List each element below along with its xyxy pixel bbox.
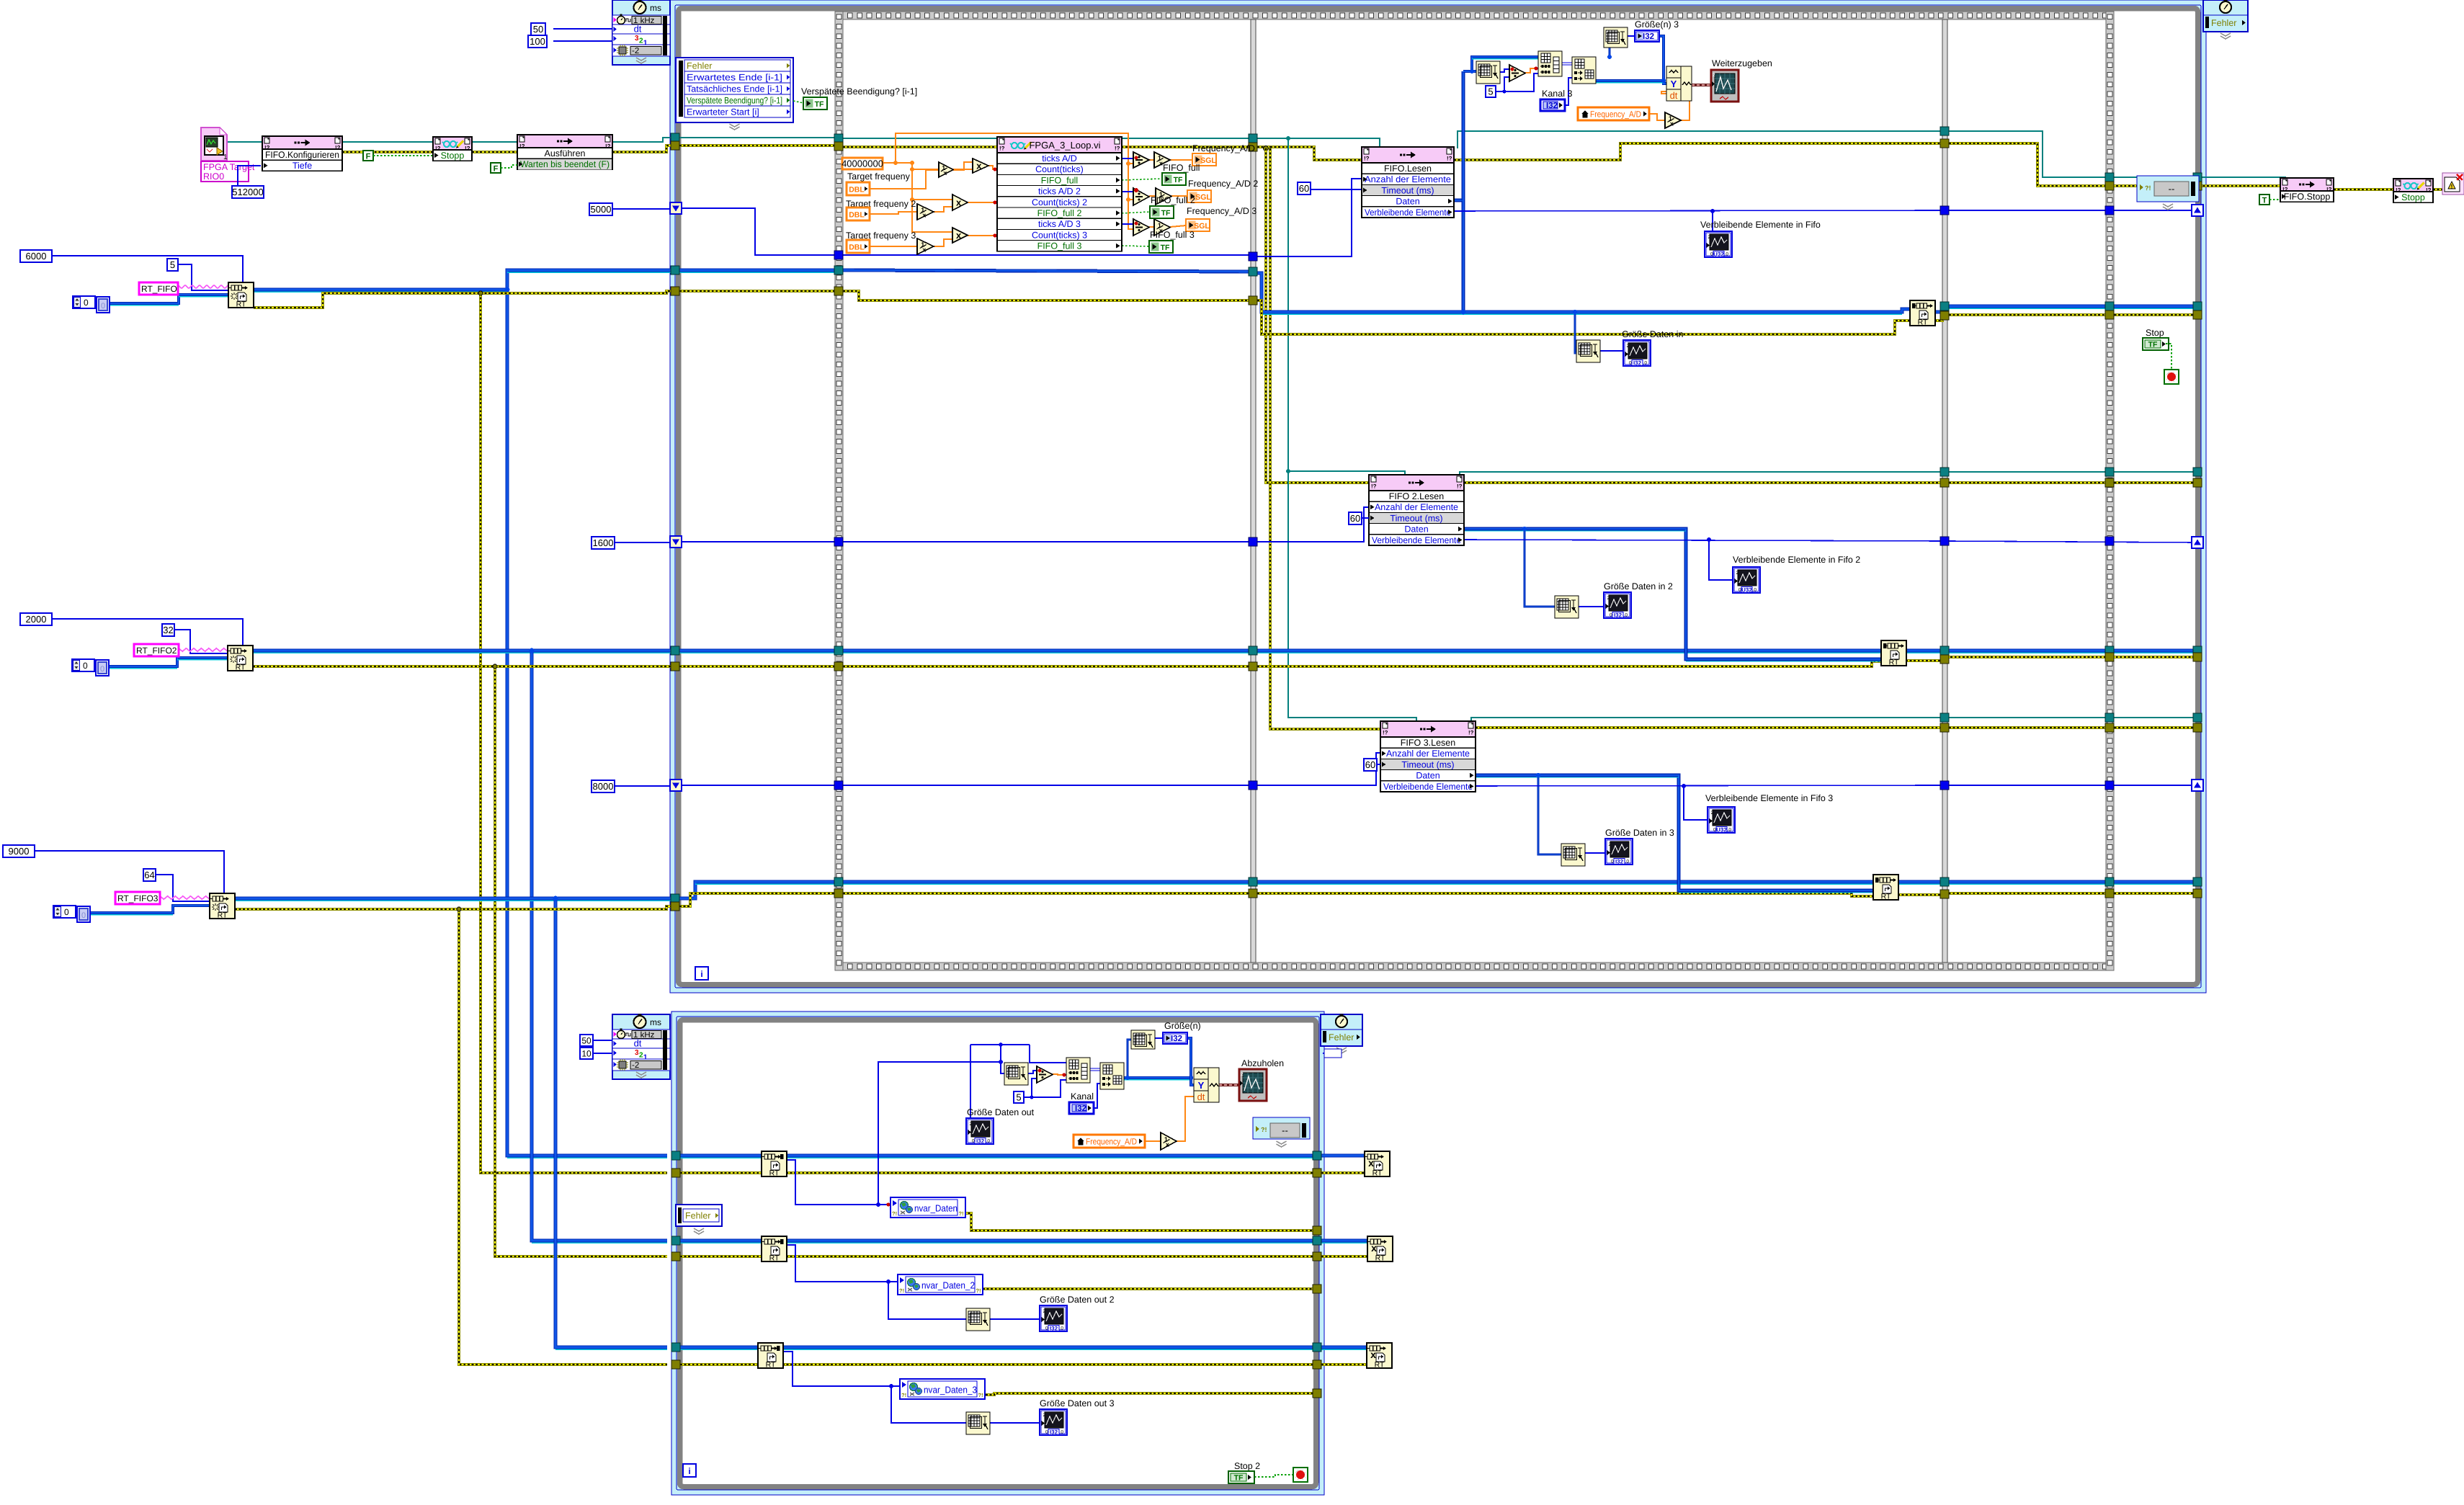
node RT FIFO delete 2 [1367,1236,1393,1261]
constant 0 element 2 [96,660,109,676]
wire: build waveform to Abzuholen [1219,1084,1239,1086]
reciprocal right 1 [1154,152,1170,168]
shift register left terminals [670,202,682,214]
bottom loop Fehler node [676,1205,722,1226]
wire: index to reshape bottom [1090,1068,1100,1069]
wire: Target frequeny 2 to reciprocal [870,212,917,214]
wire: data1 to nvar_Daten [786,1160,890,1205]
svg-text:Frequency_A/D: Frequency_A/D [1590,110,1641,120]
wire: divide to index bottom [1053,1074,1066,1075]
reshape array bottom [1100,1063,1124,1089]
svg-text:ms: ms [650,1017,661,1027]
svg-text:!?: !? [1457,483,1463,490]
svg-text:dt: dt [634,24,642,35]
wire: 5000 shift register init [612,208,670,210]
svg-text:x: x [1370,1349,1376,1360]
wire: Daten to processing (thick blue vertical) [1454,200,1463,312]
svg-text:x: x [1166,1141,1169,1148]
constant 50 [531,23,545,35]
svg-text:Tatsächliches Ende [i-1]: Tatsächliches Ende [i-1] [687,84,782,94]
svg-text:Verspätete Beendigung? [i-1]: Verspätete Beendigung? [i-1] [801,86,917,97]
svg-text:0: 0 [81,911,86,920]
svg-text:T: T [2262,197,2267,205]
wire: RT FIFO3 refnum out [235,897,671,901]
divide 3 [1133,219,1149,236]
wire: reciprocal to multiply 1 [953,162,973,170]
svg-text:60: 60 [1365,759,1375,770]
wire: Anzahl der Elemente lane (5000 SR) [680,208,835,255]
svg-text:x: x [943,169,947,177]
wire: RT FIFO2 error lane [679,665,835,668]
svg-text:F: F [366,153,371,161]
svg-text:FIFO_full 2: FIFO_full 2 [1151,195,1195,205]
svg-text:5: 5 [1016,1092,1021,1103]
node RT FIFO delete 3 [1367,1343,1392,1368]
node RT FIFO read 1 [762,1151,787,1176]
wire: FIFO2 teal out [1460,472,1940,475]
svg-text:DBL: DBL [849,186,865,195]
tunnels: sequence left border [834,134,843,143]
wire: array size to Groesse Daten out 2 [990,1318,1040,1320]
svg-text:Y: Y [1198,1080,1205,1091]
constant 5000 [589,203,612,215]
svg-text:1: 1 [223,153,228,161]
wire: 9000 to RT_FIFO3 create [35,851,224,893]
svg-text:Count(ticks) 2: Count(ticks) 2 [1032,197,1087,207]
bottom timed loop right node [1321,1014,1362,1046]
svg-text:dt: dt [634,1038,642,1049]
svg-text:RT: RT [236,664,246,672]
wire: index array to reshape [1562,62,1572,63]
constant 5 bottom [1014,1091,1024,1103]
label RT_FIFO3 [115,892,160,904]
wire: Daten 2 to RT write2 [1464,529,1881,659]
svg-text:Verbleibende Elemente in Fifo: Verbleibende Elemente in Fifo 3 [1705,793,1833,803]
wire: Target frequeny to reciprocal [870,170,939,189]
svg-text:Fehler: Fehler [2211,18,2236,28]
reciprocal 2 [917,204,934,220]
svg-text:x: x [1371,1242,1377,1254]
wire: 6000 to RT_FIFO create [52,256,243,282]
wire: divide to index array [1525,68,1538,73]
wire: error vertical to FIFO 2.Lesen [1266,148,1369,483]
main loop iteration terminal i [695,967,708,980]
wire: small output stub right node [1323,1053,1339,1054]
multiply 3 [952,228,968,243]
svg-text:Y: Y [1671,79,1677,89]
wire: RT FIFO2 error vertical [495,666,667,1256]
svg-text:--: -- [1282,1125,1288,1136]
svg-text:!?: !? [1371,483,1377,490]
array size top cluster [1476,61,1500,84]
wire: RT FIFO2 error out [253,665,671,668]
wire: error vertical to FIFO 3.Lesen [1270,148,1380,729]
shift register right terminals [2192,205,2203,216]
wire: RT write1 error out [1934,315,2193,321]
node FIFO 2.Lesen [1369,475,1464,545]
svg-text:Warten bis beendet (F): Warten bis beendet (F) [520,159,610,169]
svg-text:Frequency_A/D 3: Frequency_A/D 3 [1187,206,1256,216]
svg-text:U32: U32 [1741,587,1752,594]
wire: branch to Verbleibende in Fifo 3 indicator [1684,786,1708,820]
constant 0 spinner [73,296,95,308]
wire: array size to Groesse(n)3 [1608,46,1610,57]
wire: branch to Groesse Daten out indicator [970,1045,971,1118]
node RT FIFO write 2 [1881,640,1906,666]
svg-text:FIFO 2.Lesen: FIFO 2.Lesen [1389,491,1444,501]
wire: error lane frame1 [679,144,835,147]
svg-text:U32: U32 [1716,827,1727,834]
wire: reciprocal 2 to multiply 2 [934,207,952,212]
svg-text:?!: ?! [976,1287,981,1294]
svg-text:Größe Daten out 2: Größe Daten out 2 [1040,1295,1115,1305]
global variable Frequency_A/D bottom [1073,1135,1145,1148]
wire: reshape to build waveform bottom [1124,1076,1191,1079]
indicator SGL Frequency_A/D [1192,153,1216,166]
indicator SGL Frequency_A/D 2 [1187,190,1211,202]
svg-text:x: x [976,161,982,171]
svg-text:RT_FIFO2: RT_FIFO2 [136,646,177,656]
svg-text:dt: dt [1670,90,1678,101]
tunnels: divider 2 [1940,127,1949,135]
wire: RT write2 error out [1906,657,2193,661]
wire: Stop 2 boolean [1254,1475,1293,1477]
node Stopp 2 (property) [2393,179,2433,202]
constant 0 element [97,297,110,313]
svg-text:!?: !? [605,143,611,150]
wire: RT FIFO1 error vertical to reader loop [481,293,667,1173]
wire: 60 to Timeout 2 [1362,517,1369,519]
svg-text:!: ! [2451,184,2453,190]
wire: 5 to divide and index [1496,73,1538,91]
svg-text:RT: RT [218,911,228,920]
wire: teal FPGA ref from target to loop [227,141,262,143]
constant 0 spinner 3 [53,906,76,918]
reciprocal 1 [939,162,953,177]
svg-text:512000: 512000 [232,187,263,197]
FPGA Target RIO0 label [201,161,249,182]
svg-text:Größe(n) 3: Größe(n) 3 [1635,19,1679,30]
svg-text:Fehler: Fehler [687,61,712,71]
svg-text:Stopp: Stopp [441,151,465,161]
node Ausfuehren [517,135,612,169]
label RT_FIFO2 [134,644,179,656]
svg-text:DBL: DBL [849,211,865,220]
svg-text:!?: !? [2426,187,2432,194]
array size Groesse Daten in [1576,340,1600,362]
error display main loop [2137,176,2199,202]
svg-text:Timeout (ms): Timeout (ms) [1381,185,1434,195]
svg-text:Verbleibende Elemente: Verbleibende Elemente [1365,207,1451,218]
wire: array size to Groesse Daten out 3 [990,1422,1040,1424]
array size out 3 [966,1412,990,1434]
wire: RT write1 refnum out [1934,306,2193,312]
indicator I32 Groesse(n) [1163,1032,1187,1044]
wire: 2000 to RT_FIFO2 create [52,619,243,646]
wire: FIFO3 teal out [1471,718,1940,722]
wire: RT FIFO1 refnum lane frame2 to RT write [1257,273,1910,312]
svg-text:Daten: Daten [1404,524,1428,535]
error display bottom loop [1253,1117,1310,1139]
svg-text:SGL: SGL [1200,156,1216,165]
divide bottom cluster [1037,1066,1053,1083]
chart Weiterzugeben [1711,70,1738,102]
svg-text:SGL: SGL [1195,193,1211,202]
wire: RT write3 refnum out [1898,880,2193,884]
wire: 512000 to Tiefe [238,166,261,186]
tunnels: main loop left border [671,133,679,142]
svg-text:RT: RT [769,1254,780,1263]
wire: teal vertical to FIFO 3.Lesen [1288,471,1416,722]
divide top cluster [1509,65,1525,81]
bottom timed loop input node [612,1014,670,1079]
wire: 5 to divide and index bottom [1024,1080,1066,1097]
build waveform node bottom [1194,1068,1219,1102]
svg-text:Verbleibende Elemente: Verbleibende Elemente [1372,535,1461,545]
reciprocal 3 [917,238,934,254]
svg-text:!?: !? [1383,730,1388,736]
node RT FIFO delete 1 [1365,1151,1390,1176]
svg-text:Stop: Stop [2146,328,2164,338]
wire: data to cluster rectangle routing [1000,1045,1001,1062]
svg-text:5000: 5000 [591,204,612,215]
wire: RT FIFO1 error out [254,293,481,308]
svg-text:?!: ?! [1261,1126,1267,1133]
wire: Verbleibende Elemente 2 lane [1464,540,1940,541]
wire: FIFO_full boolean wires [1122,179,1162,180]
svg-text:ticks A/D 3: ticks A/D 3 [1038,219,1081,229]
wire: RT FIFO3 error out [235,908,459,911]
svg-text:I32: I32 [1050,1429,1058,1436]
svg-text:Frequency_A/D: Frequency_A/D [1192,143,1255,153]
wire: build waveform to Weiterzugeben [1692,84,1711,86]
constant DBL 2 [847,207,870,220]
indicator chart Groesse Daten out [966,1118,994,1144]
svg-text:?!: ?! [959,1210,964,1217]
wire: data3 to nvar_Daten_3 [782,1352,900,1386]
svg-text:I32: I32 [1171,1035,1182,1043]
wire: RT FIFO3 error lane [679,893,835,906]
array size Groesse(n) 3 [1604,27,1628,48]
boolean constant F 2 [491,163,501,173]
wire: RT read3 refnum lane [680,1346,758,1349]
multiply 1 [973,158,988,173]
svg-text:RT_FIFO: RT_FIFO [141,284,177,294]
wire: Verbleibende Elemente 3 lane [1476,785,1940,786]
constant 40000000 [842,158,883,169]
wire: RT FIFO2 refnum lane [679,649,835,653]
node RT FIFO write 3 [1873,875,1898,900]
wire: nvar_Daten_2 error out [983,1287,1313,1290]
wire: RT write2 refnum out [1906,649,2193,653]
svg-text:Fehler: Fehler [685,1211,710,1221]
wire: multiply outputs to Count inputs [988,166,997,169]
svg-text:i: i [688,1466,690,1476]
indicator TF Verspaetete [803,97,827,110]
svg-text:RT: RT [1375,1361,1385,1370]
wire: 32 to RT_FIFO2 create [174,630,228,653]
svg-text:RT_FIFO3: RT_FIFO3 [117,893,159,903]
svg-text:I32: I32 [1643,32,1654,41]
constant 64 [143,869,156,881]
wire: 0 constants to RT_FIFO create [110,295,228,303]
svg-text:x: x [956,197,962,208]
wire: F to Stopp [373,155,433,156]
node RT FIFO write 1 [1910,300,1935,326]
wire: RT write3 error out [1898,893,2193,895]
svg-text:2: 2 [1713,73,1715,78]
wire: Stopp to error handler [2433,188,2444,191]
indicator TF FIFO_full [1162,173,1186,185]
svg-text:TF: TF [1161,209,1171,218]
control TF Stop [2143,338,2169,350]
constant 60 FIFO3 [1364,759,1377,771]
FPGA Target RIO0 icon [201,128,227,161]
svg-text:Stopp: Stopp [2401,192,2425,202]
tunnels: bottom loop right border [1313,1151,1321,1160]
wire: 5 to RT_FIFO create [177,264,228,290]
svg-text:Verbleibende Elemente in Fifo: Verbleibende Elemente in Fifo 2 [1733,555,1860,565]
svg-text:FIFO 3.Lesen: FIFO 3.Lesen [1401,738,1455,748]
wire: error lane 2 bottom loop [680,1255,762,1258]
wire: error display to FIFO.Stopp [2199,184,2280,187]
wire: RT FIFO2 refnum vertical to reader loop [532,651,667,1241]
svg-text:2: 2 [1711,810,1714,816]
wire: divide to reciprocal to SGL 1 [1149,159,1154,161]
svg-text:Größe Daten out: Größe Daten out [967,1107,1035,1117]
svg-text:ticks A/D 2: ticks A/D 2 [1038,187,1081,197]
array size bottom cluster [1004,1063,1028,1085]
svg-text:32: 32 [163,625,173,635]
svg-text:Count(ticks) 3: Count(ticks) 3 [1032,230,1087,240]
node FIFO.Stopp [2280,178,2334,202]
wire: FIFO.Stopp to Stopp error [2334,188,2393,191]
wire: nvar_Daten_3 error out [986,1393,1313,1395]
node RT FIFO read 3 [758,1343,783,1368]
wire: array size to Groesse Daten in 2 [1579,606,1604,607]
svg-text:TF: TF [2148,341,2158,349]
svg-text:?!: ?! [978,1392,983,1398]
svg-text:nvar_Daten_3: nvar_Daten_3 [924,1385,977,1395]
tunnels: divider 1 [1249,134,1257,143]
node RT FIFO create 3 [210,893,235,919]
svg-text:Daten: Daten [1416,771,1439,781]
wire: RT FIFO1 error lane frame1 [679,290,835,292]
wire: RT FIFO3 error vertical [459,909,667,1365]
svg-text:FIFO.Lesen: FIFO.Lesen [1384,164,1432,174]
svg-text:Verbleibende Elemente in Fifo: Verbleibende Elemente in Fifo [1700,220,1821,230]
wire: Daten 3 to RT write3 [1476,775,1873,890]
reciprocal global bottom [1161,1133,1177,1150]
svg-text:FIFO_full 2: FIFO_full 2 [1037,208,1082,218]
wire: data2 vertical to array size [888,1282,966,1319]
svg-text:!?: !? [1364,156,1370,162]
svg-text:nvar_Daten_2: nvar_Daten_2 [921,1280,975,1291]
index array top cluster [1538,51,1562,76]
wire: array size top to divide [1500,69,1509,72]
svg-text:?!: ?! [2145,184,2151,192]
svg-text:Größe Daten in: Größe Daten in [1622,329,1684,339]
constant 10 bottom [580,1048,593,1059]
svg-text:Größe(n): Größe(n) [1164,1021,1201,1031]
reciprocal right 2 [1156,188,1171,205]
bottom loop iteration terminal i [683,1464,696,1477]
constant 60 FIFO2 [1349,512,1362,524]
svg-text:2: 2 [970,1122,973,1127]
divide 2 [1133,188,1149,205]
svg-text:!?: !? [1447,156,1452,162]
svg-text:TF: TF [1161,244,1170,252]
node FIFO.Konfigurieren [262,136,342,171]
svg-text:Verspätete Beendigung? [i-1]: Verspätete Beendigung? [i-1] [687,96,782,106]
svg-text:Timeout (ms): Timeout (ms) [1401,759,1454,769]
svg-text:Frequency_A/D: Frequency_A/D [1086,1137,1137,1147]
wire: 8000 shift register init [614,785,670,787]
wire: branch to Groesse(n) array size [1128,1040,1131,1078]
wire: teal outside loop to FIFO.Stopp [2202,177,2285,179]
wire: FIFO2 error out [1464,481,1940,484]
boolean constant F [363,151,373,161]
constant 1600 [592,537,615,549]
wire: 64 to RT_FIFO3 create [155,875,210,901]
svg-text:dt: dt [1197,1091,1205,1102]
svg-text:Größe Daten in 3: Größe Daten in 3 [1605,828,1674,838]
wire: array size to Groesse Daten in indicator [1600,350,1623,352]
svg-text:2: 2 [1736,571,1739,576]
wire: ticks outputs to divide [1122,158,1133,159]
array size out 2 [966,1308,990,1331]
svg-text:I32: I32 [1615,859,1624,865]
svg-text:?!: ?! [899,1287,904,1294]
wire: RT read2 refnum lane [680,1239,762,1243]
wire: 100 to period [553,40,612,42]
svg-text:100: 100 [530,36,545,47]
node RT FIFO create 2 [228,646,253,671]
wire: RT read1 refnum lane [680,1154,762,1158]
svg-text:2: 2 [1607,596,1610,601]
wire: data2 to nvar_Daten_2 [786,1245,898,1282]
reciprocal right 3 [1154,219,1170,236]
svg-text:FIFO_full: FIFO_full [1041,175,1078,185]
wire: RT FIFO3 refnum vertical [555,898,667,1347]
shared variable nvar_Daten_3 [900,1379,985,1399]
wire: 50/10 to bottom node [593,1040,612,1041]
wire: RT FIFO1 refnum vertical to reader loop [507,290,667,1156]
svg-text:ticks A/D: ticks A/D [1042,153,1077,164]
constant 5 [167,259,178,271]
wire: Verspaetete boolean [793,101,803,103]
indicator chart Verbleibende in Fifo [1705,231,1732,257]
constant 50 bottom [580,1035,593,1046]
wire: 40000000 distribution [882,162,912,164]
divide 1 [1133,152,1149,168]
wire: 60 to Timeout 3 [1377,764,1380,765]
svg-text:Anzahl der Elemente: Anzahl der Elemente [1386,749,1470,759]
svg-text:60: 60 [1299,183,1309,194]
svg-text:Tiefe: Tiefe [293,161,312,171]
svg-text:Kanal: Kanal [1071,1091,1094,1102]
array size Groesse Daten in 2 [1555,596,1579,618]
array size Groesse Daten in 3 [1561,844,1585,866]
wire: RT_FIFO3 name string [160,896,210,899]
structure: main timed loop [670,0,2206,993]
svg-text:ms: ms [650,3,661,13]
svg-text:RT: RT [766,1361,776,1370]
svg-text:0: 0 [64,907,69,917]
global variable Frequency_A/D [1578,107,1649,120]
svg-text:0: 0 [101,302,105,311]
constant 32 [162,624,174,636]
